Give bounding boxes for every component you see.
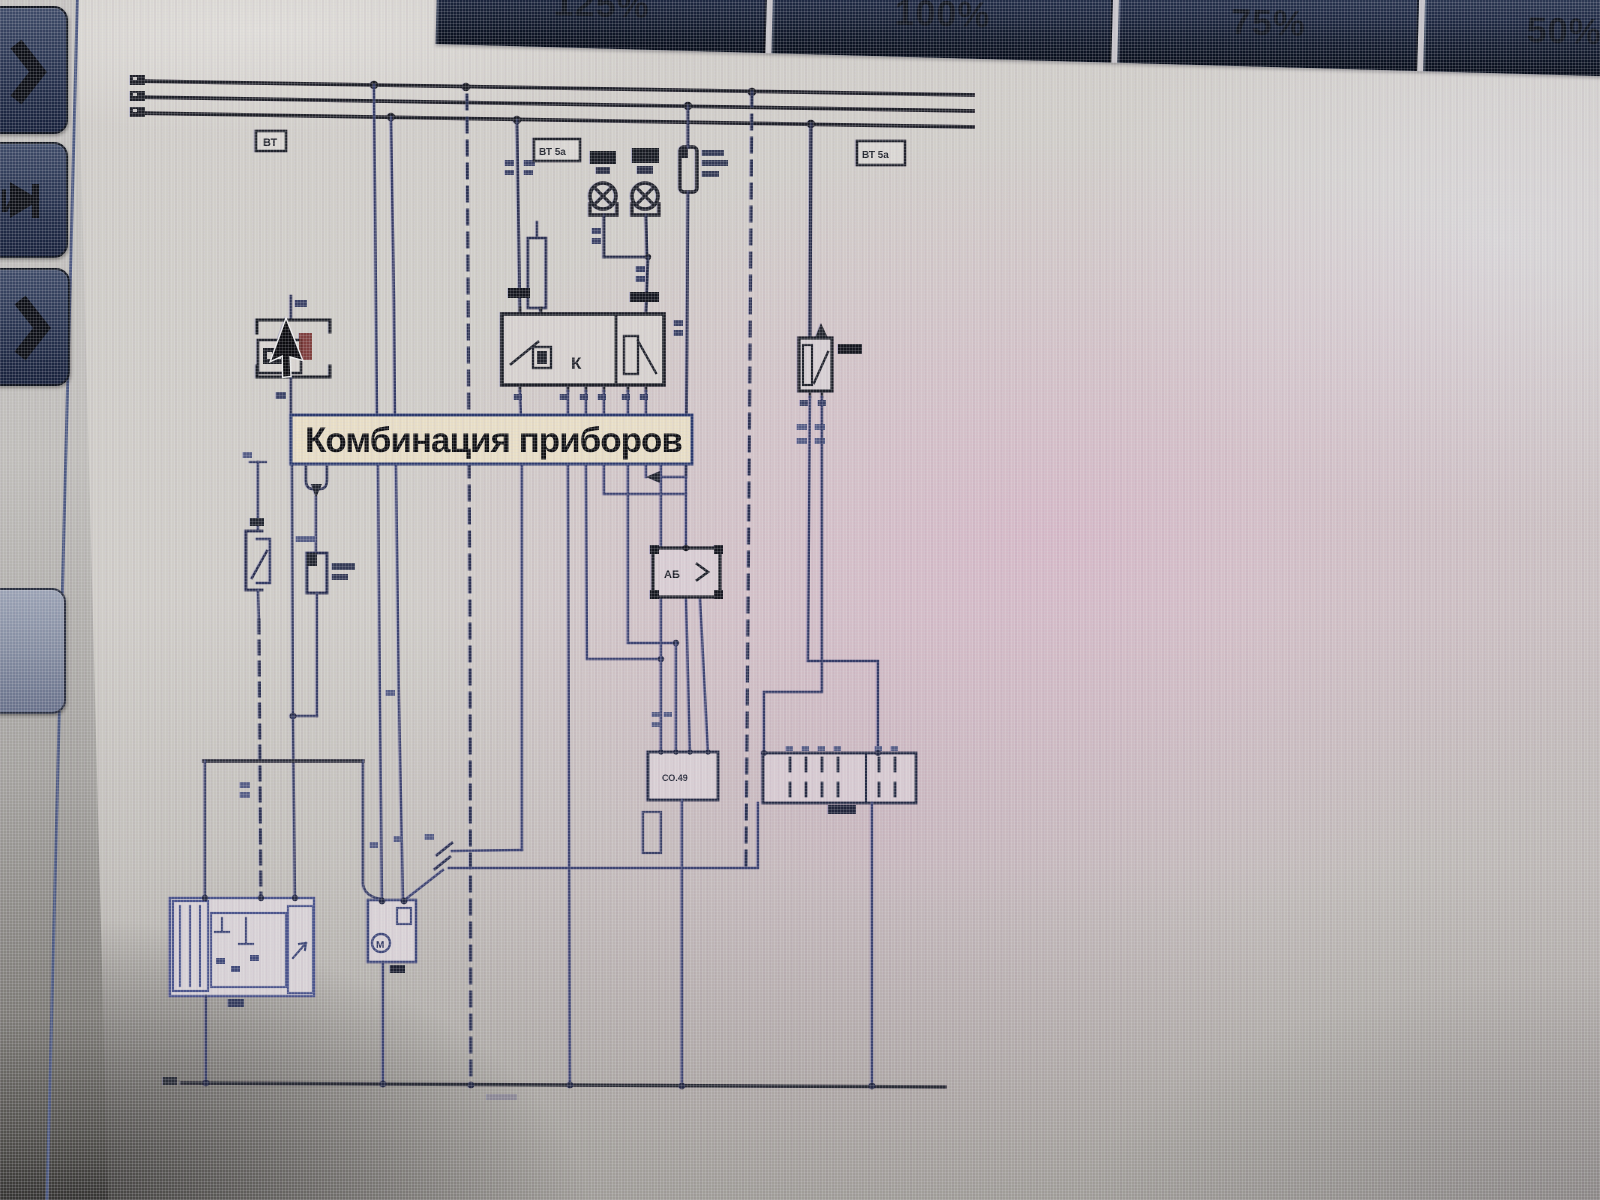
C1 top pin junctions bbox=[658, 749, 663, 754]
instrument cluster label box bbox=[291, 415, 692, 464]
dashed wire D1 (shield boundary) bbox=[467, 95, 471, 1084]
K8 ref label bbox=[838, 344, 862, 354]
wire cluster to diagnostic plug (left leg below label box) bbox=[292, 463, 293, 716]
wire K5 pin8 bbox=[627, 391, 629, 416]
door switch S1 bbox=[246, 531, 262, 590]
wire K5 pin7 jog bbox=[604, 463, 686, 494]
K1 inner contact block bbox=[258, 340, 301, 373]
wire K5 pin7 bbox=[603, 391, 605, 416]
harness loop right leg bbox=[363, 761, 382, 899]
junction of lamp wires bbox=[645, 254, 651, 260]
lamp H2 top terminal label bbox=[632, 148, 659, 163]
power bus 31 (lower supply rail) bbox=[135, 113, 973, 127]
relay K5 pin number labels bbox=[508, 288, 530, 298]
wire bus30 to motor M1 left pin (upper part) bbox=[374, 85, 377, 416]
ground junctions bbox=[203, 1080, 210, 1087]
sidebar button 4 (blank) bbox=[0, 588, 66, 714]
mouse cursor bbox=[267, 318, 315, 382]
XP2 feed junctions bbox=[761, 750, 767, 756]
M1 ref label bbox=[390, 965, 405, 973]
wire to connector C1 pin b bbox=[675, 643, 677, 752]
wire K5 pin6 bbox=[585, 391, 587, 416]
wire XP2 to ground bbox=[871, 803, 873, 1086]
lamp H1 (indicator bulb) bbox=[590, 183, 616, 209]
harness loop left leg bbox=[204, 761, 206, 898]
svg-text:СО.49: СО.49 bbox=[662, 773, 688, 783]
wire jog joining F2 wire into left leg bbox=[293, 715, 317, 717]
wire bus31/M1 below label box bbox=[396, 463, 403, 898]
wire K5 pin8 jog bbox=[628, 463, 676, 643]
power bus 15 (middle supply rail) bbox=[135, 97, 973, 111]
K5 internal divider bbox=[615, 314, 618, 385]
wire bus31 to relay K5 pin 1 bbox=[517, 120, 520, 314]
wire K5 pin9 with arrow terminal bbox=[646, 463, 686, 477]
junction on bus 31 at switch K8 feed wire bbox=[807, 120, 815, 128]
wire A1 to ground bbox=[205, 996, 207, 1083]
wire to connector C1 pin a bbox=[660, 463, 662, 752]
XP2 pin number labels bbox=[786, 746, 793, 751]
harness loop top wire (heavy) bbox=[204, 759, 363, 762]
wire M1 to ground bbox=[382, 962, 384, 1084]
A1 ref label bbox=[228, 999, 244, 1007]
wire lamp H1 down bbox=[603, 215, 606, 257]
svg-text:ВТ: ВТ bbox=[263, 137, 278, 149]
arrow terminal on pin9 wire bbox=[646, 471, 660, 483]
wire K5 pin5 to ground bbox=[568, 463, 570, 1085]
bus 15 terminal label bbox=[130, 91, 145, 101]
junction pin6 jog bbox=[658, 656, 664, 662]
dashed wire D2 (shield boundary right) bbox=[746, 92, 752, 868]
connector arrow symbol under label box bbox=[306, 467, 327, 489]
relay K5 (flasher relay block) bbox=[502, 314, 664, 385]
ground label ZM bbox=[163, 1077, 177, 1085]
svg-text:К: К bbox=[571, 354, 582, 373]
wire K5 pin4 down into label box bbox=[520, 391, 521, 416]
small pin frame below C1 bbox=[643, 812, 661, 853]
junction on bus 30 at dashed wire D1 bbox=[462, 83, 470, 91]
connector C1 (CO.49) bbox=[648, 752, 718, 800]
arrow marker above K8 bbox=[815, 323, 828, 338]
svg-text:ВТ 5а: ВТ 5а bbox=[539, 147, 566, 158]
junction on bus 15 at fuse F1 wire bbox=[684, 102, 692, 110]
XP2 ref label bbox=[828, 805, 856, 814]
tiny labels above connector C1 bbox=[652, 712, 660, 717]
wire lamps to relay K5 pin 3 bbox=[646, 257, 648, 314]
wire from rear harness to X1 bbox=[449, 803, 758, 868]
A1 left pin section bbox=[173, 901, 208, 991]
M1 top pin junctions bbox=[379, 898, 386, 905]
door switch S1 label bbox=[250, 518, 264, 526]
wire lamp H2 down to junction bbox=[646, 215, 647, 257]
K8 pin labels bbox=[800, 400, 808, 406]
relay K5 top pin ticks bbox=[520, 308, 541, 314]
ground bus (body earth) bbox=[182, 1083, 945, 1087]
fuse F1 value label (HORN 15A) bbox=[702, 150, 724, 156]
sidebar button 1 (chevron) bbox=[0, 6, 68, 134]
K1 highlighted (red) contact bbox=[299, 333, 312, 360]
switch K8 (steering column switch) bbox=[799, 338, 832, 391]
wire K5 pin9 bbox=[645, 391, 647, 416]
tiny wire labels mid-run left bbox=[386, 690, 395, 696]
junction on bus 30 at wire to M1 left bbox=[370, 81, 378, 89]
wire label near relay feed bbox=[505, 160, 514, 166]
component plate BT 5a p (right) bbox=[857, 141, 905, 165]
K8 bottom pin ticks bbox=[810, 391, 822, 397]
switch K8 feed wire bbox=[810, 124, 811, 338]
wire label under fuse F1 bbox=[674, 320, 683, 326]
lamp H1 holder bracket bbox=[590, 204, 617, 215]
sidebar button 3 (chevron) bbox=[0, 268, 70, 386]
component plate BT (label box) bbox=[256, 131, 286, 151]
junction pin8 jog bbox=[673, 640, 679, 646]
wire left leg to connector A1 bbox=[293, 716, 295, 898]
wire label near E1 bbox=[524, 160, 535, 166]
XP2 internal divider bbox=[865, 753, 867, 803]
diag block AB (ABS module) bbox=[653, 548, 720, 597]
wire label at lamp H2 bbox=[636, 266, 645, 272]
wire X1 to motor M1 right pin bbox=[406, 870, 443, 899]
node label K2.19 bbox=[630, 292, 659, 302]
fuse F2 value label bbox=[332, 563, 355, 570]
ignition switch K1 (component under cursor) bbox=[257, 319, 330, 322]
wire C1 to ground bbox=[681, 800, 683, 1085]
K5 switch contact (left) bbox=[511, 342, 538, 364]
svg-text:М: М bbox=[376, 940, 384, 951]
junction on bus 30 at dashed wire D2 bbox=[748, 88, 756, 96]
lamp H2 (indicator bulb) bbox=[632, 183, 658, 209]
wire bus30/M1 below label box bbox=[378, 463, 382, 898]
wire bus31 to motor M1 right pin (upper part) bbox=[391, 117, 395, 416]
junction at jog bbox=[290, 713, 297, 720]
wire fuse F1 down bbox=[686, 192, 688, 477]
A1 right section with arrow bbox=[288, 906, 313, 993]
connector block A1 (instrument harness plug) bbox=[170, 898, 314, 996]
wire labels below K8 bbox=[797, 424, 807, 430]
dashed wire D3 (S1 to connector A1) bbox=[259, 620, 261, 898]
AB top pin junction bbox=[683, 545, 689, 551]
stub terminal for door switch wire bbox=[250, 461, 266, 463]
lamp H2 holder bracket bbox=[632, 204, 659, 215]
bus 31 terminal label bbox=[130, 107, 145, 117]
wire K1 to instrument cluster label box bbox=[290, 377, 293, 416]
screen border line bbox=[45, 0, 79, 1200]
fuse F2 bbox=[307, 553, 327, 593]
svg-text:Комбинация приборов: Комбинация приборов bbox=[305, 421, 682, 460]
wire K5 pin6 jog to connector wire bbox=[586, 463, 661, 659]
wire bus15 to fuse F1 bbox=[687, 106, 690, 147]
XP2 pins row bbox=[790, 758, 895, 771]
bus 30 terminal label bbox=[130, 75, 145, 85]
wire pin4 chain below label box toward connector break bbox=[521, 463, 523, 850]
svg-text:АБ: АБ bbox=[664, 569, 680, 581]
lamp H1 top terminal label bbox=[590, 151, 616, 164]
wire bend to connector break X1 bbox=[452, 850, 522, 851]
wire code label above F2 bbox=[296, 536, 316, 542]
motor M1 (pump motor) bbox=[368, 900, 416, 962]
ground label KUZOV bbox=[487, 1094, 517, 1100]
fusible link E1 (narrow box) bbox=[528, 238, 546, 308]
wire stub above ignition switch K1 bbox=[290, 296, 293, 320]
wire stub to door switch S1 bbox=[257, 462, 259, 529]
wire stub to fusible link E1 bbox=[536, 222, 538, 238]
connector break X1 (inline connector symbol) bbox=[435, 843, 452, 869]
wire fuse chain to C1 pin c bbox=[686, 477, 690, 752]
wire K5 pin5 bbox=[567, 391, 569, 416]
A1 middle contact section bbox=[211, 913, 286, 987]
connector XP2 (rear harness connector) bbox=[763, 753, 916, 803]
wire E1 to relay K5 pin 2 bbox=[540, 308, 541, 314]
top zoom toolbar bbox=[435, 0, 1600, 79]
wire to C1 pin d bbox=[700, 597, 708, 752]
wire K8 pin2 down-left to rear connector bbox=[764, 397, 822, 753]
fuse F1 bbox=[680, 147, 697, 192]
sidebar button 2 (nav icon) bbox=[0, 142, 68, 258]
component plate BT 5a p (middle) bbox=[534, 139, 580, 161]
wire fuse F2 down bbox=[316, 593, 318, 716]
wire S1 down bbox=[258, 590, 259, 620]
K5 right compartment element bbox=[624, 336, 638, 374]
junction on bus 31 at relay feed wire bbox=[513, 116, 521, 124]
junction on bus 31 at wire to M1 right bbox=[387, 113, 395, 121]
left sidebar panel bbox=[0, 0, 120, 1200]
svg-text:ВТ 5а: ВТ 5а bbox=[862, 150, 889, 161]
wire connector arrow to fuse F2 bbox=[315, 497, 317, 553]
K5 bottom pin ticks bbox=[520, 385, 646, 391]
A1 top pin junctions bbox=[202, 895, 208, 901]
K5 pin number labels (bottom) bbox=[514, 394, 522, 400]
power bus 30 (top supply rail) bbox=[135, 81, 973, 95]
wire label at lamp H1 bbox=[592, 228, 601, 234]
wire label near X1 bbox=[425, 834, 434, 840]
wire K8 pin1 down-right to rear connector bbox=[808, 397, 878, 753]
wire joining lamps H1+H2 bbox=[604, 256, 648, 259]
